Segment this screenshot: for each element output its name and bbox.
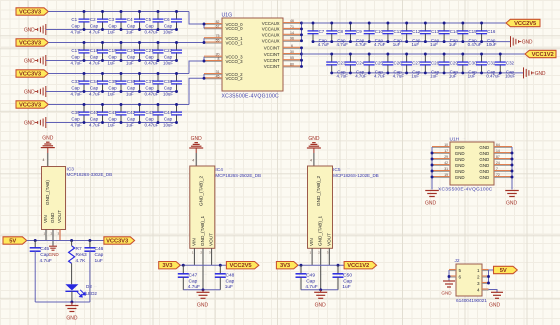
svg-text:Cap: Cap xyxy=(127,86,136,91)
svg-text:1: 1 xyxy=(44,232,46,236)
svg-text:GND: GND xyxy=(455,169,465,174)
power port VCC3V3 (row 2) xyxy=(16,39,48,47)
capacitor C35 xyxy=(108,72,127,96)
svg-text:Cap: Cap xyxy=(108,86,117,91)
svg-text:7: 7 xyxy=(496,167,498,171)
svg-text:C23: C23 xyxy=(337,60,346,65)
capacitor C39 xyxy=(71,103,90,127)
svg-text:1uF: 1uF xyxy=(108,61,116,66)
capacitor C30 xyxy=(457,53,477,79)
svg-text:C19: C19 xyxy=(108,48,117,53)
svg-text:GND: GND xyxy=(522,40,533,46)
svg-text:GND_(TAB): GND_(TAB) xyxy=(45,180,50,205)
svg-text:14: 14 xyxy=(496,149,500,153)
power port VCC3V3 (IC3 output) xyxy=(104,237,135,245)
svg-text:4.7uF: 4.7uF xyxy=(355,42,367,47)
svg-text:1uF: 1uF xyxy=(430,74,438,79)
capacitor C19 xyxy=(108,41,127,65)
capacitor C14 xyxy=(439,22,459,48)
svg-text:4.7uF: 4.7uF xyxy=(188,284,200,290)
svg-text:4.7uF: 4.7uF xyxy=(305,284,317,290)
svg-text:4.7uF: 4.7uF xyxy=(337,74,349,79)
capacitor C26 xyxy=(382,53,404,79)
regulator IC3 MCP1826S-3302E_DB xyxy=(42,167,113,246)
wire GND to IC5 tab pin xyxy=(310,148,314,166)
svg-text:VCC3V3: VCC3V3 xyxy=(19,10,42,16)
svg-text:···: ··· xyxy=(463,258,466,262)
svg-text:VOUT: VOUT xyxy=(209,233,214,246)
svg-text:VIN: VIN xyxy=(309,238,314,246)
svg-text:8: 8 xyxy=(218,57,220,61)
capacitor C48 xyxy=(215,265,235,290)
svg-text:87: 87 xyxy=(496,155,500,159)
wire IC5 rail xyxy=(298,264,344,267)
svg-text:C25: C25 xyxy=(375,60,384,65)
svg-text:GND: GND xyxy=(425,201,437,207)
wire IC4 rail xyxy=(180,264,226,267)
svg-text:C4: C4 xyxy=(127,17,133,22)
svg-text:0.47uF: 0.47uF xyxy=(468,42,482,47)
ground GND (row 3) xyxy=(24,86,46,97)
capacitor C28 xyxy=(420,53,440,79)
ground GND (IC4 bottom) xyxy=(197,292,210,308)
svg-text:VCCAUX: VCCAUX xyxy=(262,33,280,38)
ground GND (IC5 bottom) xyxy=(314,292,327,308)
svg-text:10uF: 10uF xyxy=(163,30,173,35)
svg-text:4: 4 xyxy=(43,158,45,162)
capacitor C41 xyxy=(108,103,127,127)
wire 5V rail xyxy=(27,239,104,242)
svg-text:C42: C42 xyxy=(127,110,136,115)
svg-text:C50: C50 xyxy=(343,273,352,279)
svg-text:VCC3V3: VCC3V3 xyxy=(19,41,42,47)
svg-text:1uF: 1uF xyxy=(126,92,134,97)
capacitor C5 xyxy=(145,10,164,34)
capacitor C15 xyxy=(457,22,481,48)
capacitor C38 xyxy=(163,72,182,96)
svg-text:0.47uF: 0.47uF xyxy=(486,74,500,79)
ground GND (above IC4) xyxy=(189,136,203,148)
capacitor C6 xyxy=(163,10,182,34)
svg-text:MCP1826S-3302E_DB: MCP1826S-3302E_DB xyxy=(67,172,113,177)
capacitor C23 xyxy=(326,53,348,79)
capacitor C49 xyxy=(296,265,318,290)
capacitor C34 xyxy=(89,72,108,96)
svg-text:4.7uF: 4.7uF xyxy=(374,74,386,79)
svg-text:GND_(TAB)_1: GND_(TAB)_1 xyxy=(318,215,323,246)
svg-text:2: 2 xyxy=(200,251,202,255)
node VCCAUX bus xyxy=(300,22,303,43)
svg-text:80: 80 xyxy=(290,62,294,66)
resistor R7 xyxy=(69,241,87,285)
svg-text:3: 3 xyxy=(58,232,60,236)
svg-text:GND: GND xyxy=(479,175,489,180)
svg-text:MCP1826S-1202E_DB: MCP1826S-1202E_DB xyxy=(333,173,379,178)
svg-text:VCCINT: VCCINT xyxy=(264,46,280,51)
ground GND (above IC3) xyxy=(41,135,55,147)
ground GND (IC3 pin) xyxy=(49,246,60,257)
capacitor C22 xyxy=(163,41,182,65)
svg-text:4.7uF: 4.7uF xyxy=(89,61,101,66)
svg-text:C5: C5 xyxy=(145,17,151,22)
capacitor C9 xyxy=(345,22,367,48)
capacitor C43 xyxy=(145,103,164,127)
node J2 output bus xyxy=(487,270,493,284)
capacitor C16 xyxy=(476,22,497,48)
svg-text:IC4: IC4 xyxy=(215,167,223,173)
svg-text:Cap: Cap xyxy=(108,117,117,122)
ground GND (U1H right) xyxy=(505,191,519,207)
connector J2 614004190021 xyxy=(449,258,489,304)
capacitor C10 xyxy=(364,22,386,48)
svg-text:4.7uF: 4.7uF xyxy=(89,92,101,97)
svg-text:1uF: 1uF xyxy=(108,123,116,128)
svg-text:Cap: Cap xyxy=(145,55,154,60)
ground GND (row 4) xyxy=(24,117,46,128)
svg-text:GND: GND xyxy=(455,163,465,168)
svg-text:0.47uF: 0.47uF xyxy=(145,123,159,128)
capacitor C27 xyxy=(401,53,421,79)
svg-text:C34: C34 xyxy=(90,79,99,84)
svg-text:Cap: Cap xyxy=(127,55,136,60)
svg-text:VCCAUX: VCCAUX xyxy=(262,21,280,26)
wire U1G VCCO_0 pair to row1 rail xyxy=(189,12,205,29)
capacitor C1 xyxy=(71,10,90,34)
power port 5V (input) xyxy=(3,237,27,245)
svg-text:4.7uF: 4.7uF xyxy=(71,61,83,66)
ground GND (J2 pin4) xyxy=(489,292,503,308)
svg-text:GND: GND xyxy=(197,302,209,308)
svg-text:1uF: 1uF xyxy=(449,74,457,79)
svg-text:3: 3 xyxy=(209,251,211,255)
svg-text:17: 17 xyxy=(444,149,448,153)
wire J2 left pins to ground xyxy=(448,270,451,281)
wire GND row 1 bottom rail xyxy=(46,29,177,31)
svg-text:C10: C10 xyxy=(375,29,384,34)
svg-text:···: ··· xyxy=(463,137,466,141)
svg-text:10uF: 10uF xyxy=(486,42,496,47)
svg-text:GND: GND xyxy=(455,151,465,156)
ghost marks xyxy=(78,137,466,288)
node VCCINT bus xyxy=(300,46,303,68)
svg-text:2: 2 xyxy=(318,251,320,255)
svg-text:10uF: 10uF xyxy=(163,61,173,66)
wire U1G VCCO_3 pair to row3 rail xyxy=(189,57,205,74)
svg-text:3: 3 xyxy=(327,251,329,255)
svg-text:Cap: Cap xyxy=(71,117,80,122)
svg-text:Cap: Cap xyxy=(108,55,117,60)
power port VCC3V3 (row 4) xyxy=(16,101,48,109)
ground GND (above IC5) xyxy=(307,136,321,148)
capacitor C29 xyxy=(439,53,459,79)
svg-text:1uF: 1uF xyxy=(95,258,103,264)
capacitor C36 xyxy=(126,72,145,96)
capacitor C7 xyxy=(308,22,330,48)
power port 3V3 (IC4 input) xyxy=(159,262,181,270)
svg-text:1uF: 1uF xyxy=(126,123,134,128)
svg-text:GND: GND xyxy=(66,315,78,321)
svg-text:C8: C8 xyxy=(337,29,343,34)
svg-text:4.7uF: 4.7uF xyxy=(71,92,83,97)
svg-text:4.7uF: 4.7uF xyxy=(337,42,349,47)
svg-text:GND: GND xyxy=(308,136,320,142)
svg-text:Cap: Cap xyxy=(343,279,352,285)
svg-text:C29: C29 xyxy=(450,60,459,65)
capacitor C13 xyxy=(420,22,440,48)
svg-text:Cap: Cap xyxy=(145,86,154,91)
svg-text:67: 67 xyxy=(216,24,220,28)
svg-text:GND: GND xyxy=(42,135,54,141)
svg-text:C27: C27 xyxy=(412,60,421,65)
capacitor C11 xyxy=(382,22,402,48)
svg-text:VOUT: VOUT xyxy=(57,210,62,223)
svg-text:4.7K: 4.7K xyxy=(76,258,87,264)
svg-text:Cap: Cap xyxy=(306,279,315,285)
ground GND (IC3 bottom) xyxy=(65,306,78,322)
svg-text:C12: C12 xyxy=(412,29,421,34)
svg-text:···: ··· xyxy=(321,273,324,277)
svg-text:2: 2 xyxy=(477,274,480,279)
svg-text:···: ··· xyxy=(78,165,81,169)
svg-text:GND: GND xyxy=(479,169,489,174)
svg-text:14: 14 xyxy=(290,31,294,35)
wire U1G VCCO_2 pair to row4 rail xyxy=(189,74,205,105)
wire GND row 2 bottom rail xyxy=(46,60,177,62)
svg-text:C44: C44 xyxy=(164,110,173,115)
svg-text:4: 4 xyxy=(192,159,194,163)
capacitor C37 xyxy=(145,72,164,96)
svg-text:···: ··· xyxy=(204,273,207,277)
svg-text:2: 2 xyxy=(51,232,53,236)
svg-text:45: 45 xyxy=(216,74,220,78)
capacitor C50 xyxy=(333,265,353,290)
wire J2 pin4 to ground xyxy=(489,290,498,293)
svg-text:U1G: U1G xyxy=(222,12,233,18)
svg-text:VCCO_1: VCCO_1 xyxy=(226,40,244,45)
svg-text:Cap: Cap xyxy=(90,86,99,91)
wire U1G VCCO_1 pair to row2 rail xyxy=(203,38,206,44)
wire GND row 3 bottom rail xyxy=(46,91,177,93)
svg-text:VCC3V3: VCC3V3 xyxy=(19,103,42,109)
svg-text:C48: C48 xyxy=(226,273,235,279)
svg-text:4.7uF: 4.7uF xyxy=(318,42,330,47)
svg-text:64: 64 xyxy=(496,143,500,147)
svg-text:Cap: Cap xyxy=(145,117,154,122)
svg-text:Cap: Cap xyxy=(90,24,99,29)
svg-text:C20: C20 xyxy=(127,48,136,53)
regulator IC4 MCP1826S-2502E_DB xyxy=(190,166,261,290)
svg-text:GND: GND xyxy=(455,175,465,180)
svg-text:10uF: 10uF xyxy=(163,123,173,128)
ground GND (J2 left) xyxy=(441,281,455,296)
svg-text:1uF: 1uF xyxy=(468,74,476,79)
svg-text:···: ··· xyxy=(94,284,97,288)
svg-text:1uF: 1uF xyxy=(411,42,419,47)
svg-text:VCC3V3: VCC3V3 xyxy=(106,239,129,245)
wire IC3 bottom gnd rail xyxy=(35,301,90,306)
svg-text:31: 31 xyxy=(444,167,448,171)
svg-text:5V: 5V xyxy=(9,239,16,245)
svg-text:···: ··· xyxy=(347,167,350,171)
svg-text:Cap: Cap xyxy=(90,55,99,60)
svg-text:XC3S500E-4VQG100C: XC3S500E-4VQG100C xyxy=(438,186,493,192)
capacitor C21 xyxy=(145,41,164,65)
capacitor C24 xyxy=(345,53,367,79)
wire VCCAUX gnd rail xyxy=(313,41,511,43)
capacitor C25 xyxy=(364,53,386,79)
svg-text:Cap: Cap xyxy=(189,279,198,285)
svg-text:GND: GND xyxy=(489,302,501,308)
svg-text:1uF: 1uF xyxy=(449,42,457,47)
svg-text:Cap: Cap xyxy=(71,24,80,29)
svg-text:0.47uF: 0.47uF xyxy=(145,30,159,35)
svg-text:614004190021: 614004190021 xyxy=(456,298,487,304)
svg-text:4.7uF: 4.7uF xyxy=(393,74,405,79)
svg-text:C16: C16 xyxy=(487,29,496,34)
svg-text:Cap: Cap xyxy=(108,24,117,29)
svg-text:GND: GND xyxy=(455,145,465,150)
power port 5V (J2 output) xyxy=(494,266,518,274)
svg-text:C22: C22 xyxy=(164,48,173,53)
svg-text:D2: D2 xyxy=(86,284,92,289)
svg-text:J2: J2 xyxy=(455,258,460,264)
svg-text:Cap: Cap xyxy=(71,55,80,60)
svg-text:42: 42 xyxy=(444,161,448,165)
svg-text:1uF: 1uF xyxy=(393,42,401,47)
svg-text:GND: GND xyxy=(24,90,35,96)
svg-text:1uF: 1uF xyxy=(108,30,116,35)
svg-text:4: 4 xyxy=(310,159,312,163)
svg-text:C1: C1 xyxy=(71,17,77,22)
wire VCCINT rail xyxy=(302,53,526,55)
svg-text:6: 6 xyxy=(459,274,462,279)
wire VCCINT gnd rail xyxy=(332,72,524,74)
FPGA power pins U1G xyxy=(204,12,302,99)
svg-text:C46: C46 xyxy=(95,246,104,252)
capacitor C12 xyxy=(401,22,421,48)
svg-text:C14: C14 xyxy=(450,29,459,34)
capacitor C20 xyxy=(126,41,145,65)
svg-text:VCCO_2: VCCO_2 xyxy=(226,76,244,81)
svg-text:C18: C18 xyxy=(90,48,99,53)
ground GND (VCCAUX row) xyxy=(511,36,533,47)
svg-text:VCC2V5: VCC2V5 xyxy=(514,21,537,27)
svg-text:1uF: 1uF xyxy=(411,74,419,79)
svg-text:96: 96 xyxy=(290,37,294,41)
svg-text:C43: C43 xyxy=(145,110,154,115)
capacitor C40 xyxy=(89,103,108,127)
wire IC4 bottom gnd rail xyxy=(183,288,220,292)
svg-text:VCCO_3: VCCO_3 xyxy=(226,59,244,64)
svg-text:Cap: Cap xyxy=(71,86,80,91)
capacitor C3 xyxy=(108,10,127,34)
svg-text:VCC1V2: VCC1V2 xyxy=(347,263,369,269)
svg-text:0.47uF: 0.47uF xyxy=(145,92,159,97)
svg-text:4.7uF: 4.7uF xyxy=(89,123,101,128)
svg-text:VCC3V3: VCC3V3 xyxy=(19,72,42,78)
svg-text:1: 1 xyxy=(192,251,194,255)
svg-text:C13: C13 xyxy=(431,29,440,34)
svg-text:4.7uF: 4.7uF xyxy=(374,42,386,47)
svg-text:VCC2V5: VCC2V5 xyxy=(230,263,253,269)
svg-text:GND: GND xyxy=(506,201,518,207)
svg-text:GND: GND xyxy=(535,71,546,77)
svg-text:GND: GND xyxy=(479,163,489,168)
svg-text:VCCO_0: VCCO_0 xyxy=(226,26,244,31)
svg-text:1: 1 xyxy=(477,268,480,273)
svg-text:C17: C17 xyxy=(71,48,80,53)
svg-text:VIN: VIN xyxy=(191,238,196,246)
svg-text:C35: C35 xyxy=(108,79,117,84)
wire VCC3V3 row 4 top rail xyxy=(48,104,189,106)
svg-text:IC5: IC5 xyxy=(333,167,341,173)
power port VCC1V2 xyxy=(525,50,556,58)
capacitor C46 xyxy=(84,241,103,303)
ground GND (row 2) xyxy=(24,55,46,66)
svg-text:VCCINT: VCCINT xyxy=(264,52,280,57)
wire VCC3V3 row 2 top rail xyxy=(48,42,204,44)
svg-text:C15: C15 xyxy=(468,29,477,34)
svg-text:MCP1826S-2502E_DB: MCP1826S-2502E_DB xyxy=(215,173,261,178)
capacitor C45 xyxy=(30,241,52,303)
power port VCC1V2 (IC5 output) xyxy=(344,262,377,270)
svg-text:C40: C40 xyxy=(90,110,99,115)
svg-text:4.7uF: 4.7uF xyxy=(355,74,367,79)
svg-text:VCCINT: VCCINT xyxy=(264,58,280,63)
svg-text:Cap: Cap xyxy=(40,252,49,258)
svg-text:Cap: Cap xyxy=(226,279,235,285)
svg-text:C41: C41 xyxy=(108,110,117,115)
svg-text:72: 72 xyxy=(496,173,500,177)
svg-text:GND: GND xyxy=(479,145,489,150)
svg-text:1uF: 1uF xyxy=(225,284,233,290)
svg-text:Cap: Cap xyxy=(164,55,173,60)
svg-text:Cap: Cap xyxy=(95,252,104,258)
svg-text:U1H: U1H xyxy=(450,136,460,142)
capacitor C44 xyxy=(163,103,182,127)
svg-text:4: 4 xyxy=(477,287,480,292)
svg-text:GND: GND xyxy=(479,157,489,162)
svg-text:C21: C21 xyxy=(145,48,154,53)
svg-text:4.7uF: 4.7uF xyxy=(40,258,52,264)
svg-text:1uF: 1uF xyxy=(126,30,134,35)
svg-text:C38: C38 xyxy=(164,79,173,84)
svg-text:55: 55 xyxy=(290,56,294,60)
svg-text:3V3: 3V3 xyxy=(280,263,291,269)
svg-text:10uF: 10uF xyxy=(163,92,173,97)
svg-text:GND: GND xyxy=(479,151,489,156)
svg-text:GND_(TAB)_2: GND_(TAB)_2 xyxy=(198,175,203,206)
capacitor C33 xyxy=(71,72,90,96)
wire VCCAUX rail xyxy=(302,22,507,24)
svg-text:LED2: LED2 xyxy=(86,291,98,296)
wire IC5 bottom gnd rail xyxy=(301,288,338,292)
capacitor C2 xyxy=(89,10,108,34)
power port VCC3V3 (row 3) xyxy=(16,70,48,78)
svg-text:1: 1 xyxy=(310,251,312,255)
svg-text:55: 55 xyxy=(216,39,220,43)
wire VCC3V3 row 1 top rail xyxy=(48,11,189,13)
capacitor C42 xyxy=(126,103,145,127)
wire U1H left gnd bus xyxy=(431,147,434,190)
svg-text:1uF: 1uF xyxy=(108,92,116,97)
svg-text:C36: C36 xyxy=(127,79,136,84)
svg-text:C47: C47 xyxy=(189,273,198,279)
svg-text:GND: GND xyxy=(441,291,452,296)
capacitor C18 xyxy=(89,41,108,65)
svg-text:VIN: VIN xyxy=(43,215,48,223)
FPGA ground pins U1H xyxy=(432,136,512,192)
